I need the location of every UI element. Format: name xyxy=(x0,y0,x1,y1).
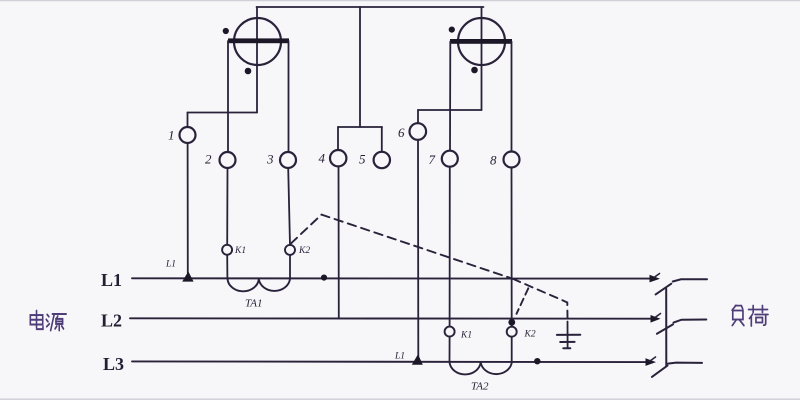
wire: terminal 1 down to L1 junction xyxy=(187,143,189,273)
junction dot on terminal-8 wire below L2 xyxy=(508,319,515,326)
junction triangle on L1 at terminal-1 wire xyxy=(182,271,193,281)
wire: drop to terminal 5 xyxy=(381,127,383,152)
svg-text:5: 5 xyxy=(359,152,366,167)
荷 xyxy=(749,309,768,311)
ground bar 2 xyxy=(560,341,574,343)
svg-text:1: 1 xyxy=(168,128,175,143)
wire: U1 right leg to terminal 3 xyxy=(288,41,290,152)
wire: branch horizontal above terminals 4 and 5 xyxy=(338,126,382,128)
text 负荷 (load), drawn strokes xyxy=(732,305,768,326)
wire: drop to terminal 1 xyxy=(187,113,189,128)
电 xyxy=(36,311,38,328)
CT TA1 primary loops under line L1 xyxy=(228,279,291,291)
svg-text:L2: L2 xyxy=(101,311,122,331)
wire: terminal 3 down to CT TA1 terminal K2 xyxy=(288,168,290,245)
arrowhead L3 xyxy=(646,358,657,366)
line L3 xyxy=(132,360,648,363)
meter U2 polarity dot upper-left xyxy=(449,27,455,33)
border top xyxy=(0,0,800,2)
wire: drop to terminal 4 xyxy=(337,127,339,150)
text 电源 (power source), drawn strokes xyxy=(30,311,66,331)
wire: terminal 2 down to CT TA1 terminal K1 xyxy=(226,168,228,245)
svg-text:6: 6 xyxy=(398,125,405,140)
dashed wire: short branch toward L2 xyxy=(517,288,529,314)
wire: middle vertical drop from top bus to terminals 4/5 branch xyxy=(359,7,361,127)
CT TA1 secondary terminal K2 xyxy=(285,245,295,255)
meter element U2 circle xyxy=(458,18,505,65)
svg-text:TA2: TA2 xyxy=(471,381,489,393)
op meter U1 center vertical wire xyxy=(256,7,258,113)
meter U1 polarity dot upper-left xyxy=(223,28,229,34)
meter U2 current coil thick bar xyxy=(450,39,512,44)
ground symbol stem xyxy=(567,322,569,348)
border bottom xyxy=(0,398,800,400)
wire: terminal 8 down to CT TA2 terminal K2 xyxy=(511,168,513,327)
op meter U2 center vertical wire xyxy=(481,7,483,110)
wire: terminal 6 down to L3 junction xyxy=(417,140,419,357)
wire: K2 to line L1 xyxy=(289,255,291,278)
wire: drop to terminal 6 xyxy=(417,110,419,123)
arrowhead L2 xyxy=(651,315,661,323)
CT TA2 primary loops under line L3 xyxy=(450,362,512,374)
wire: U2 left leg to terminal 7 xyxy=(449,42,451,151)
load switch blade L2 xyxy=(657,324,673,333)
meter U1 polarity dot lower xyxy=(245,68,252,75)
junction dot on L1 xyxy=(321,275,327,281)
terminal 2 xyxy=(220,152,236,168)
arrowhead L1 xyxy=(650,275,661,283)
wire: U1 left leg to terminal 2 xyxy=(227,41,229,152)
wire: terminal 7 down to CT TA2 terminal K1 xyxy=(449,167,451,327)
terminal 7 xyxy=(442,151,458,167)
terminal 8 xyxy=(504,152,520,168)
svg-text:K2: K2 xyxy=(524,330,536,340)
wire: top bus from meter U1 to meter U2 xyxy=(257,6,484,8)
dashed wire: from TA1 K2 up to peak then down to L1/terminal-8 crossing xyxy=(291,215,513,279)
负 xyxy=(732,305,736,310)
wire: K1 to line L1 xyxy=(226,255,228,278)
wire: U1 horizontal to terminal 1 xyxy=(188,112,258,114)
svg-text:K2: K2 xyxy=(298,246,310,256)
terminal 1 xyxy=(180,127,196,143)
CT TA1 secondary terminal K1 xyxy=(222,245,232,255)
wire: U2 horizontal to terminal 6 xyxy=(418,109,482,111)
load-side conductor L1 xyxy=(673,279,707,281)
CT TA2 secondary terminal K1 xyxy=(445,327,455,337)
源 xyxy=(47,315,49,317)
load-side conductor L3 xyxy=(668,363,702,364)
svg-text:L3: L3 xyxy=(103,354,124,374)
load switch blade L3 xyxy=(652,366,668,377)
wire: terminal 4 down to line L2 xyxy=(338,166,340,318)
meter U1 current coil thick bar xyxy=(228,38,289,43)
ground bar 3 xyxy=(563,347,570,349)
wire: U2 right leg to terminal 8 xyxy=(511,42,513,152)
svg-text:K1: K1 xyxy=(460,331,472,341)
svg-text:K1: K1 xyxy=(234,246,246,256)
ground bar 1 xyxy=(557,334,580,336)
svg-text:7: 7 xyxy=(429,152,436,167)
line L1 xyxy=(132,277,652,279)
svg-text:L1: L1 xyxy=(101,270,122,290)
svg-text:3: 3 xyxy=(266,152,274,167)
meter U2 polarity dot lower xyxy=(471,67,478,74)
wire: TA2 K1 to line L3 xyxy=(449,337,451,361)
svg-text:L1: L1 xyxy=(165,260,176,270)
svg-text:2: 2 xyxy=(205,152,212,167)
svg-text:8: 8 xyxy=(490,153,497,168)
load switch vertical bar xyxy=(665,289,667,366)
dashed wire: branch to earth symbol xyxy=(513,279,568,319)
terminal 4 xyxy=(330,150,346,166)
meter element U1 circle xyxy=(234,18,281,65)
load switch blade L1 xyxy=(656,284,672,295)
load-side conductor L2 xyxy=(674,320,707,323)
terminal 6 xyxy=(410,123,427,140)
svg-text:L1: L1 xyxy=(394,352,405,362)
terminal 5 xyxy=(374,152,390,168)
junction dot on L3 xyxy=(534,358,540,364)
CT TA2 secondary terminal K2 xyxy=(507,327,517,337)
svg-text:TA1: TA1 xyxy=(245,298,263,310)
junction triangle on L3 at terminal-6 wire xyxy=(412,354,423,365)
terminal 3 xyxy=(280,152,296,168)
wire: TA2 K2 to line L3 xyxy=(511,337,513,361)
line L2 xyxy=(130,317,652,319)
svg-text:4: 4 xyxy=(319,151,326,166)
